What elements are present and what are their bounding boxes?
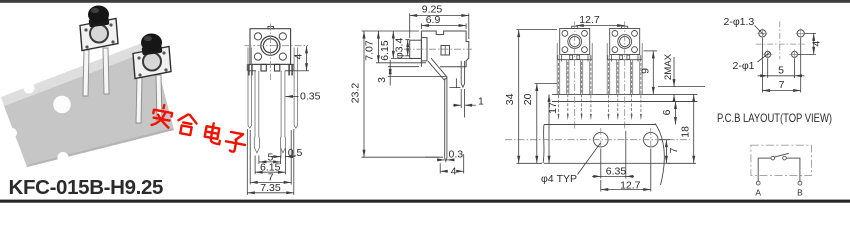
svg-text:0.5: 0.5 — [288, 147, 303, 159]
wire right — [786, 158, 800, 181]
schematic enclosure dash-dot box — [751, 145, 812, 175]
svg-text:5: 5 — [778, 64, 784, 76]
dimension 17 — [548, 94, 550, 163]
side view body outline — [421, 31, 468, 67]
corner rivet circle BL — [254, 53, 261, 60]
plate edge notch 3 — [58, 152, 69, 163]
svg-text:KFC-015B-H9.25: KFC-015B-H9.25 — [9, 176, 164, 199]
svg-text:3: 3 — [376, 77, 388, 83]
photo: switch 1 legs — [83, 48, 109, 96]
dimension 6.15 — [391, 31, 420, 58]
skirt slot left — [249, 64, 252, 75]
dimension 0.35 (leg thickness) — [285, 96, 298, 98]
dimension 9 — [644, 51, 658, 95]
dimension 4 (side view bottom) — [440, 154, 464, 174]
button outer circle — [261, 36, 280, 55]
svg-text:4: 4 — [293, 54, 305, 60]
bracket side leg right — [294, 48, 298, 129]
svg-text:7: 7 — [779, 79, 785, 91]
wire left — [758, 158, 771, 181]
svg-text:6.35: 6.35 — [606, 165, 627, 177]
svg-text:φ4 TYP: φ4 TYP — [541, 173, 577, 185]
svg-text:0.3: 0.3 — [449, 149, 464, 161]
switch centerline left — [574, 22, 576, 131]
dimension 7.07 — [376, 31, 426, 63]
svg-text:6: 6 — [661, 109, 673, 115]
terminal B circle — [798, 181, 802, 185]
dimension 20 — [535, 84, 558, 164]
band hole centerline horizontal — [505, 139, 690, 141]
dimension 6 — [675, 102, 677, 125]
svg-text:9: 9 — [640, 68, 652, 74]
svg-text:6.9: 6.9 — [426, 14, 441, 26]
inner contact window — [441, 46, 450, 56]
side view centerline — [404, 48, 472, 50]
svg-text:7: 7 — [668, 147, 680, 153]
char 安 — [151, 103, 173, 128]
bottom frame border line — [0, 200, 850, 203]
terminal A circle — [756, 181, 760, 185]
bracket band outline — [543, 124, 670, 186]
svg-text:7.35: 7.35 — [260, 182, 281, 194]
photo: metal mounting plate — [1, 40, 174, 167]
front view top tab — [268, 26, 274, 28]
pcb pad hole bottom-left — [765, 51, 771, 57]
corner rivet circle BR — [279, 53, 286, 60]
skirt slot right — [289, 64, 292, 75]
svg-text:A: A — [755, 188, 761, 198]
svg-text:4: 4 — [451, 165, 457, 177]
long contact leg — [445, 78, 447, 162]
switch contact right — [783, 156, 787, 160]
dimension 6.15 — [255, 156, 285, 175]
skirt center tab left — [261, 64, 266, 71]
assembly switch unit left — [557, 26, 592, 94]
bracket side leg left — [248, 48, 252, 129]
skirt bottom edge — [247, 64, 293, 70]
front view centerline horizontal — [245, 45, 309, 47]
button stem — [410, 40, 422, 58]
pcb pattern centerline vertical — [779, 21, 781, 59]
svg-text:2-φ1.3: 2-φ1.3 — [724, 16, 755, 28]
svg-text:φ3.4: φ3.4 — [393, 38, 405, 60]
dimension 5 (leg pitch) — [259, 156, 281, 165]
bracket short rear line — [455, 78, 457, 88]
plate edge notch 2 — [7, 128, 17, 138]
assembly left switch solid legs to pcb — [557, 43, 592, 94]
dimension phi 3.4 — [405, 40, 409, 56]
contact leg left — [254, 71, 259, 153]
pcb dimension 4 — [798, 33, 816, 54]
pcb pad hole bottom-right — [792, 51, 798, 57]
contact leg right — [280, 71, 285, 153]
dimension 0.3 (leg tip) — [425, 157, 455, 160]
photo: switch 2 body — [133, 47, 171, 79]
band hole centerline vertical right — [650, 128, 652, 150]
leg tips below pcb — [558, 114, 642, 121]
char 电 — [204, 122, 223, 144]
char 子 — [224, 131, 246, 153]
top frame border line — [0, 0, 850, 3]
switch contact left — [771, 156, 775, 160]
dimension 6.35 — [592, 131, 634, 179]
dimension 3 — [388, 60, 446, 86]
dimension 0.5 (bracket leg tip) — [271, 148, 296, 159]
button flange — [421, 38, 427, 61]
bracket band hole left — [594, 132, 609, 147]
button inner circle — [263, 39, 277, 53]
svg-text:12.7: 12.7 — [579, 14, 600, 26]
dimension 23.2 — [362, 31, 444, 157]
svg-text:2-φ1: 2-φ1 — [733, 60, 755, 72]
dimension 9.25 — [410, 13, 469, 39]
svg-text:17: 17 — [547, 102, 559, 114]
svg-text:7.07: 7.07 — [364, 40, 376, 61]
dimension 18 — [668, 94, 696, 163]
side view left face segments — [420, 31, 422, 67]
hidden legs below pcb left switch — [559, 62, 591, 116]
pcb pad hole top-left — [759, 30, 766, 37]
plate edge notch 1 — [24, 83, 35, 94]
svg-text:B: B — [797, 188, 803, 198]
front view body square — [250, 29, 291, 65]
svg-text:23.2: 23.2 — [350, 83, 362, 104]
pcb pattern centerline horizontal — [756, 43, 805, 45]
switch lever — [775, 153, 789, 157]
svg-text:1: 1 — [478, 96, 484, 108]
hidden legs below pcb right switch — [609, 62, 641, 116]
pad crosshair ticks — [757, 28, 805, 59]
svg-text:34: 34 — [504, 93, 516, 105]
svg-text:12.7: 12.7 — [620, 179, 641, 191]
dimension 7 — [250, 130, 291, 185]
photo: switch 2 button — [141, 34, 162, 56]
photo: switch 1 button — [88, 6, 109, 28]
corner rivet circle TR — [279, 33, 286, 40]
dimension 7.35 — [247, 129, 293, 195]
red watermark text 安合电子 — [149, 103, 249, 153]
pcb pad hole top-right — [797, 30, 804, 37]
plate center hole — [53, 96, 71, 114]
corner rivet circle TL — [254, 33, 261, 40]
band hole centerline vertical left — [600, 128, 602, 150]
switch centerline right — [624, 22, 626, 131]
dimension 12.7 bottom — [601, 149, 651, 192]
bracket band hole right — [644, 132, 659, 147]
dimension 4 (front view right) — [294, 46, 309, 71]
dimension 6.9 — [421, 23, 466, 29]
pcb dimension 5 — [758, 59, 805, 79]
skirt center tab right — [275, 64, 280, 71]
photo: switch 1 body — [80, 19, 118, 51]
svg-text:P.C.B LAYOUT(TOP VIEW): P.C.B LAYOUT(TOP VIEW) — [717, 112, 832, 125]
svg-text:20: 20 — [522, 93, 534, 105]
assembly switch unit right — [607, 26, 642, 94]
svg-text:4: 4 — [811, 41, 823, 47]
dimension 34 — [517, 30, 558, 164]
pcb dimension 7 — [762, 38, 800, 93]
mounting tab right — [461, 61, 464, 87]
pcb top surface line — [552, 93, 697, 95]
dimension 12.7 top — [576, 25, 625, 27]
char 合 — [176, 113, 198, 136]
pcb bottom surface line — [552, 101, 697, 103]
svg-text:0.35: 0.35 — [300, 91, 321, 103]
bracket diagonal leg — [428, 58, 447, 80]
assembly right switch solid legs to pcb — [607, 43, 642, 94]
svg-text:2MAX: 2MAX — [663, 53, 674, 80]
front view centerline vertical — [269, 24, 271, 81]
svg-text:6.15: 6.15 — [379, 40, 391, 61]
dimension 1 (tab width) — [450, 87, 476, 117]
dimension 2MAX — [658, 57, 705, 102]
photo: switch 2 legs — [136, 75, 162, 123]
dimension 7 (band) — [659, 140, 670, 164]
svg-text:18: 18 — [680, 126, 692, 138]
